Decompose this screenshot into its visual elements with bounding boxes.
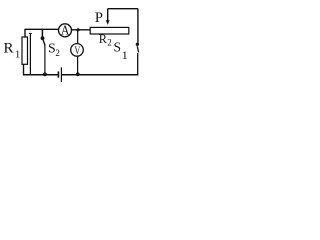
svg-text:2: 2 — [107, 38, 112, 48]
svg-text:1: 1 — [122, 48, 128, 62]
svg-text:S: S — [114, 39, 122, 54]
svg-text:P: P — [95, 10, 103, 26]
svg-text:A: A — [61, 23, 70, 39]
svg-text:R: R — [4, 41, 14, 57]
svg-text:2: 2 — [55, 48, 60, 58]
svg-text:1: 1 — [15, 49, 21, 61]
svg-text:V: V — [74, 43, 80, 57]
